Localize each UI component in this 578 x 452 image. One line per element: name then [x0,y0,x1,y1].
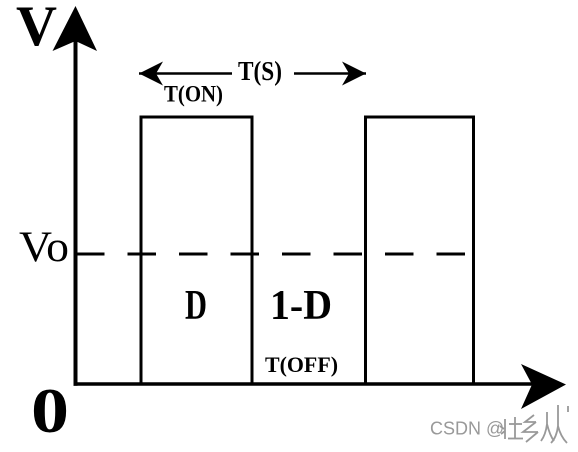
y-axis arrowhead [53,6,98,51]
watermark hanzi zhuang [500,417,523,439]
watermark hanzi xiang [523,415,538,442]
x-axis arrowhead [521,364,566,409]
period arrow left head [139,62,163,86]
watermark hanzi ren [541,405,568,443]
svg-text:D: D [185,283,207,329]
svg-text:V: V [16,0,57,58]
svg-text:1-D: 1-D [270,283,332,329]
svg-text:CSDN @: CSDN @ [430,419,504,439]
white mask behind T(S) label [232,57,294,88]
svg-text:T(ON): T(ON) [164,82,223,107]
svg-text:0: 0 [31,376,69,446]
svg-text:Vo: Vo [19,224,69,271]
svg-text:T(S): T(S) [238,56,282,86]
pulse 2 outline [366,117,474,384]
y-axis shaft [74,40,78,386]
period arrow shaft T(S) [139,72,366,75]
pulse 1 outline [141,117,252,384]
dashed line at Vo level [76,253,474,256]
period arrow right head [342,62,366,86]
svg-text:T(OFF): T(OFF) [265,352,338,377]
x-axis shaft [74,382,534,386]
